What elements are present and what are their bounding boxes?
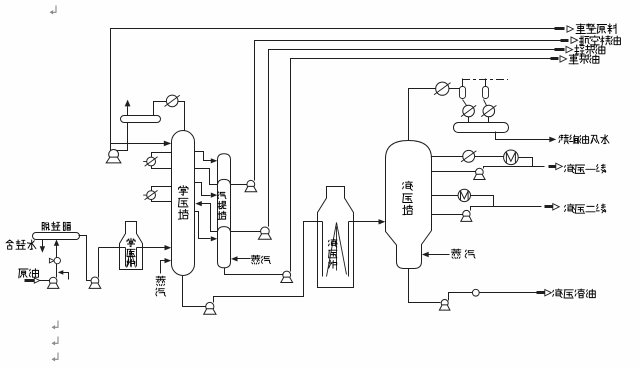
vacuum furnace 减压炉 (body)	[318, 187, 354, 288]
wire: stripper return line	[202, 204, 218, 232]
open arrow 航空煤油	[571, 37, 578, 43]
furnace2 flame	[327, 223, 347, 277]
wire: steam line to atm tower	[161, 261, 166, 274]
wire: X4 to hotwell	[468, 117, 470, 123]
label 减压塔 (vertical)	[403, 181, 413, 215]
open arrow crude	[34, 278, 40, 283]
wire: vac pump2 suction	[432, 214, 463, 216]
thick bar 减压一线	[549, 165, 557, 168]
wire: pump P7 discharge riser	[98, 248, 100, 278]
wire: bottoms pump discharge to vacuum furnace	[214, 222, 317, 303]
wire: recycle elbow	[63, 273, 69, 280]
wire: atm tower bottoms line	[183, 276, 206, 307]
wire: overhead product header to reforming feed (重整原料), y=29	[111, 29, 557, 151]
paragraph mark 4	[52, 353, 59, 362]
wire: draw 1 to stripper	[195, 152, 212, 161]
kerosene pump P3	[245, 180, 257, 191]
arrow crude up into drum	[54, 240, 59, 246]
wire: X5 to hotwell	[488, 117, 490, 123]
arrow feed into atm tower	[165, 245, 172, 250]
thick bar line D	[551, 57, 559, 60]
desalter drum V2	[33, 233, 80, 240]
wire: vac residue line	[449, 293, 473, 301]
label 蒸汽 (stripper)	[251, 255, 270, 264]
label 原油	[19, 269, 39, 278]
arrow steam into vacuum tower	[422, 252, 429, 257]
label 脱盐罐	[42, 222, 70, 230]
motor/meter M1	[504, 150, 519, 165]
stripping tower 汽提塔 (3 sections)	[218, 154, 231, 268]
thick bar 减压二线	[545, 205, 555, 208]
wire: E2 to aftercondenser X5	[484, 100, 487, 106]
wire: stripper bottoms to pump P5	[225, 268, 283, 275]
wire: X3 to motor M1	[475, 156, 504, 158]
wire: M2 to product junction	[471, 196, 494, 207]
wire: vac draw2 to motor M2	[432, 195, 459, 197]
condenser C1 (circle w/ slash)	[165, 95, 180, 107]
atmospheric tower 常压塔 (capsule)	[172, 131, 195, 276]
thick bar line C	[555, 48, 565, 51]
open arrow 减压二线	[553, 204, 560, 210]
wire: M1 to product junction	[519, 158, 533, 167]
wire: vac product line 1	[484, 167, 545, 169]
wire: light diesel draw to pump P4	[231, 231, 261, 233]
wire: vac pump1 suction	[432, 171, 476, 173]
wire: light diesel header riser x=268.1 (轻柴油)	[269, 50, 557, 227]
wire: reflux line into atm tower	[111, 143, 165, 145]
label 减压渣油	[553, 289, 596, 298]
arrow draw3 into stripper	[211, 193, 218, 198]
label 含盐水	[6, 240, 36, 249]
light diesel pump P4	[258, 227, 271, 239]
wire: brine drain	[42, 240, 44, 248]
arrow brine down	[40, 246, 45, 253]
vacuum tower 减压塔	[386, 141, 432, 269]
wire: ejector steam dash-dot header	[462, 79, 508, 81]
vac pump P9	[461, 210, 472, 221]
label 重柴油	[569, 54, 599, 64]
wire: crude riser into desalter	[56, 245, 58, 278]
wire: furnace2 inner tubes	[323, 222, 349, 277]
label 蒸汽 vertical (atm tower)	[156, 276, 166, 296]
label 重整原料	[576, 24, 616, 34]
wire: E1 to aftercondenser X4	[463, 100, 467, 106]
open arrow 减压渣油	[545, 290, 552, 296]
thick bar line A	[555, 27, 565, 30]
wire: steam line stripper	[238, 258, 251, 260]
arrow steam into stripper	[231, 256, 238, 261]
wire: kerosene header riser x=254.6 (航空煤油)	[255, 41, 569, 181]
motor/meter M2	[458, 189, 470, 201]
arrow draw1 into stripper	[211, 158, 218, 163]
open arrow 重柴油	[560, 56, 567, 62]
wire: vac product line 2	[471, 207, 542, 211]
wire: upper pumparound draw	[152, 153, 172, 158]
wire: kerosene draw to pump P3	[231, 184, 247, 186]
arrow steam into atm tower	[165, 258, 172, 263]
wire: furnace1 inner tubes	[126, 248, 137, 267]
arrow recycle left	[58, 270, 64, 275]
wire: furnace2 outlet to vacuum tower	[354, 221, 380, 223]
open arrow 轻柴油	[566, 46, 573, 52]
label 汽提塔 (vertical)	[218, 192, 226, 220]
wire+thick bar: crude feed line	[25, 279, 50, 282]
paragraph mark 1	[50, 6, 57, 15]
label 常压炉 (vertical)	[127, 238, 135, 266]
steam ejector E1	[460, 87, 466, 99]
arrow return into atm tower	[195, 201, 202, 206]
aftercondenser X5	[481, 105, 496, 117]
wire: lower pumparound draw	[152, 187, 172, 191]
label 减压二线	[565, 204, 606, 213]
vac pump P8	[474, 168, 485, 179]
arrow up vent	[125, 100, 131, 107]
label 减压一线	[565, 164, 606, 173]
arrow 凝缩油及水	[549, 137, 556, 143]
vac bottoms pump P10	[439, 300, 450, 311]
wire: heavy diesel header riser x=290.6 (重柴油)	[291, 59, 552, 272]
wire: residue line cont.	[480, 292, 539, 294]
atmospheric furnace 常压炉 (body)	[120, 222, 143, 270]
wire: atm tower overhead vapour line	[179, 102, 185, 131]
wire: drum outlet to reflux pump	[117, 123, 128, 151]
wire: condenser C2 to ejector 1	[449, 88, 460, 90]
hotwell drum V3	[454, 123, 509, 133]
valve on crude riser	[49, 257, 60, 263]
wire: draw 3 to stripper	[195, 183, 211, 196]
steam ejector E2	[483, 87, 489, 99]
aftercondenser X4	[461, 105, 476, 117]
label 蒸汽 (vacuum tower)	[452, 249, 476, 259]
wire: upper pumparound return	[152, 166, 172, 169]
wire: steam drop to E1	[462, 79, 464, 87]
wire: drum vent line	[127, 107, 129, 116]
reflux pump P1	[106, 150, 121, 163]
crude pump P6	[48, 277, 59, 288]
wire: hotwell outlet (凝缩油及水)	[496, 132, 550, 140]
wire: steam line vac tower	[429, 254, 450, 256]
wire: vac tower top to condenser C2	[409, 89, 436, 141]
paragraph mark 3	[52, 337, 59, 346]
open arrow 减压一线	[556, 163, 563, 169]
exchanger X1	[143, 157, 157, 166]
exchanger X2	[143, 190, 157, 199]
label 常压塔 (vertical)	[179, 186, 189, 220]
reflux drum V1	[121, 116, 161, 123]
label 轻柴油	[575, 45, 605, 54]
thick bar 减压渣油	[537, 291, 545, 294]
arrow feed into vacuum tower	[379, 219, 386, 224]
open arrow 重整原料	[567, 26, 574, 32]
arrow draw5 into stripper	[211, 236, 218, 241]
wire: vac tower bottoms	[409, 269, 441, 303]
condenser C2	[434, 82, 451, 95]
wire: steam drop to E2	[485, 79, 487, 87]
exchanger X3	[461, 150, 476, 162]
desalted crude pump P7	[89, 277, 101, 288]
valve ball on residue line	[472, 289, 479, 296]
wire: furnace2 feed stubs	[317, 221, 354, 223]
arrow reflux into tower	[164, 141, 172, 147]
label 减压炉 (vertical)	[328, 239, 337, 268]
wire: crude feed through furnace1 to atm tower	[99, 247, 166, 249]
wire: condenser to reflux drum	[154, 102, 167, 116]
thick bar line B	[561, 39, 569, 42]
wire: vac draw1 to exchanger X3	[432, 156, 463, 158]
paragraph mark 2	[52, 321, 59, 330]
label 凝缩油及水	[559, 135, 609, 144]
heavy diesel pump P5	[281, 271, 293, 282]
furnace1 flame	[127, 250, 136, 268]
wire: draw 2 to stripper	[195, 169, 218, 185]
label 航空煤油	[580, 36, 621, 45]
wire: desalter outlet to pump P7	[79, 236, 91, 281]
wire: draw 5 to stripper	[195, 212, 211, 239]
wire: lower pumparound return	[152, 200, 172, 202]
bottoms pump P2	[204, 302, 216, 314]
